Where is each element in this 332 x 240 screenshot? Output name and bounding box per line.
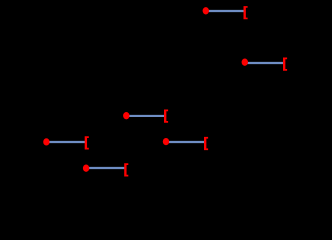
step segment 4 open endpoint bracket [204,137,208,150]
step segment 1 open endpoint bracket [85,136,89,149]
step segment 3 open endpoint bracket [164,110,168,123]
step segment 6 open endpoint bracket [283,58,287,71]
step segment 5 open endpoint bracket [244,6,248,19]
step segment 6 closed endpoint dot [242,59,248,66]
step segment 1 line [46,141,87,143]
step segment 2 closed endpoint dot [83,165,89,172]
step segment 4 closed endpoint dot [163,138,169,145]
step segment 6 line [245,62,285,64]
step segment 5 closed endpoint dot [203,7,209,14]
step segment 2 open endpoint bracket [124,163,128,176]
step segment 5 line [206,10,245,12]
step segment 2 line [86,167,126,169]
step segment 3 line [126,115,165,117]
step segment 1 closed endpoint dot [43,138,49,145]
step segment 3 closed endpoint dot [123,112,129,119]
step segment 4 line [166,141,206,143]
